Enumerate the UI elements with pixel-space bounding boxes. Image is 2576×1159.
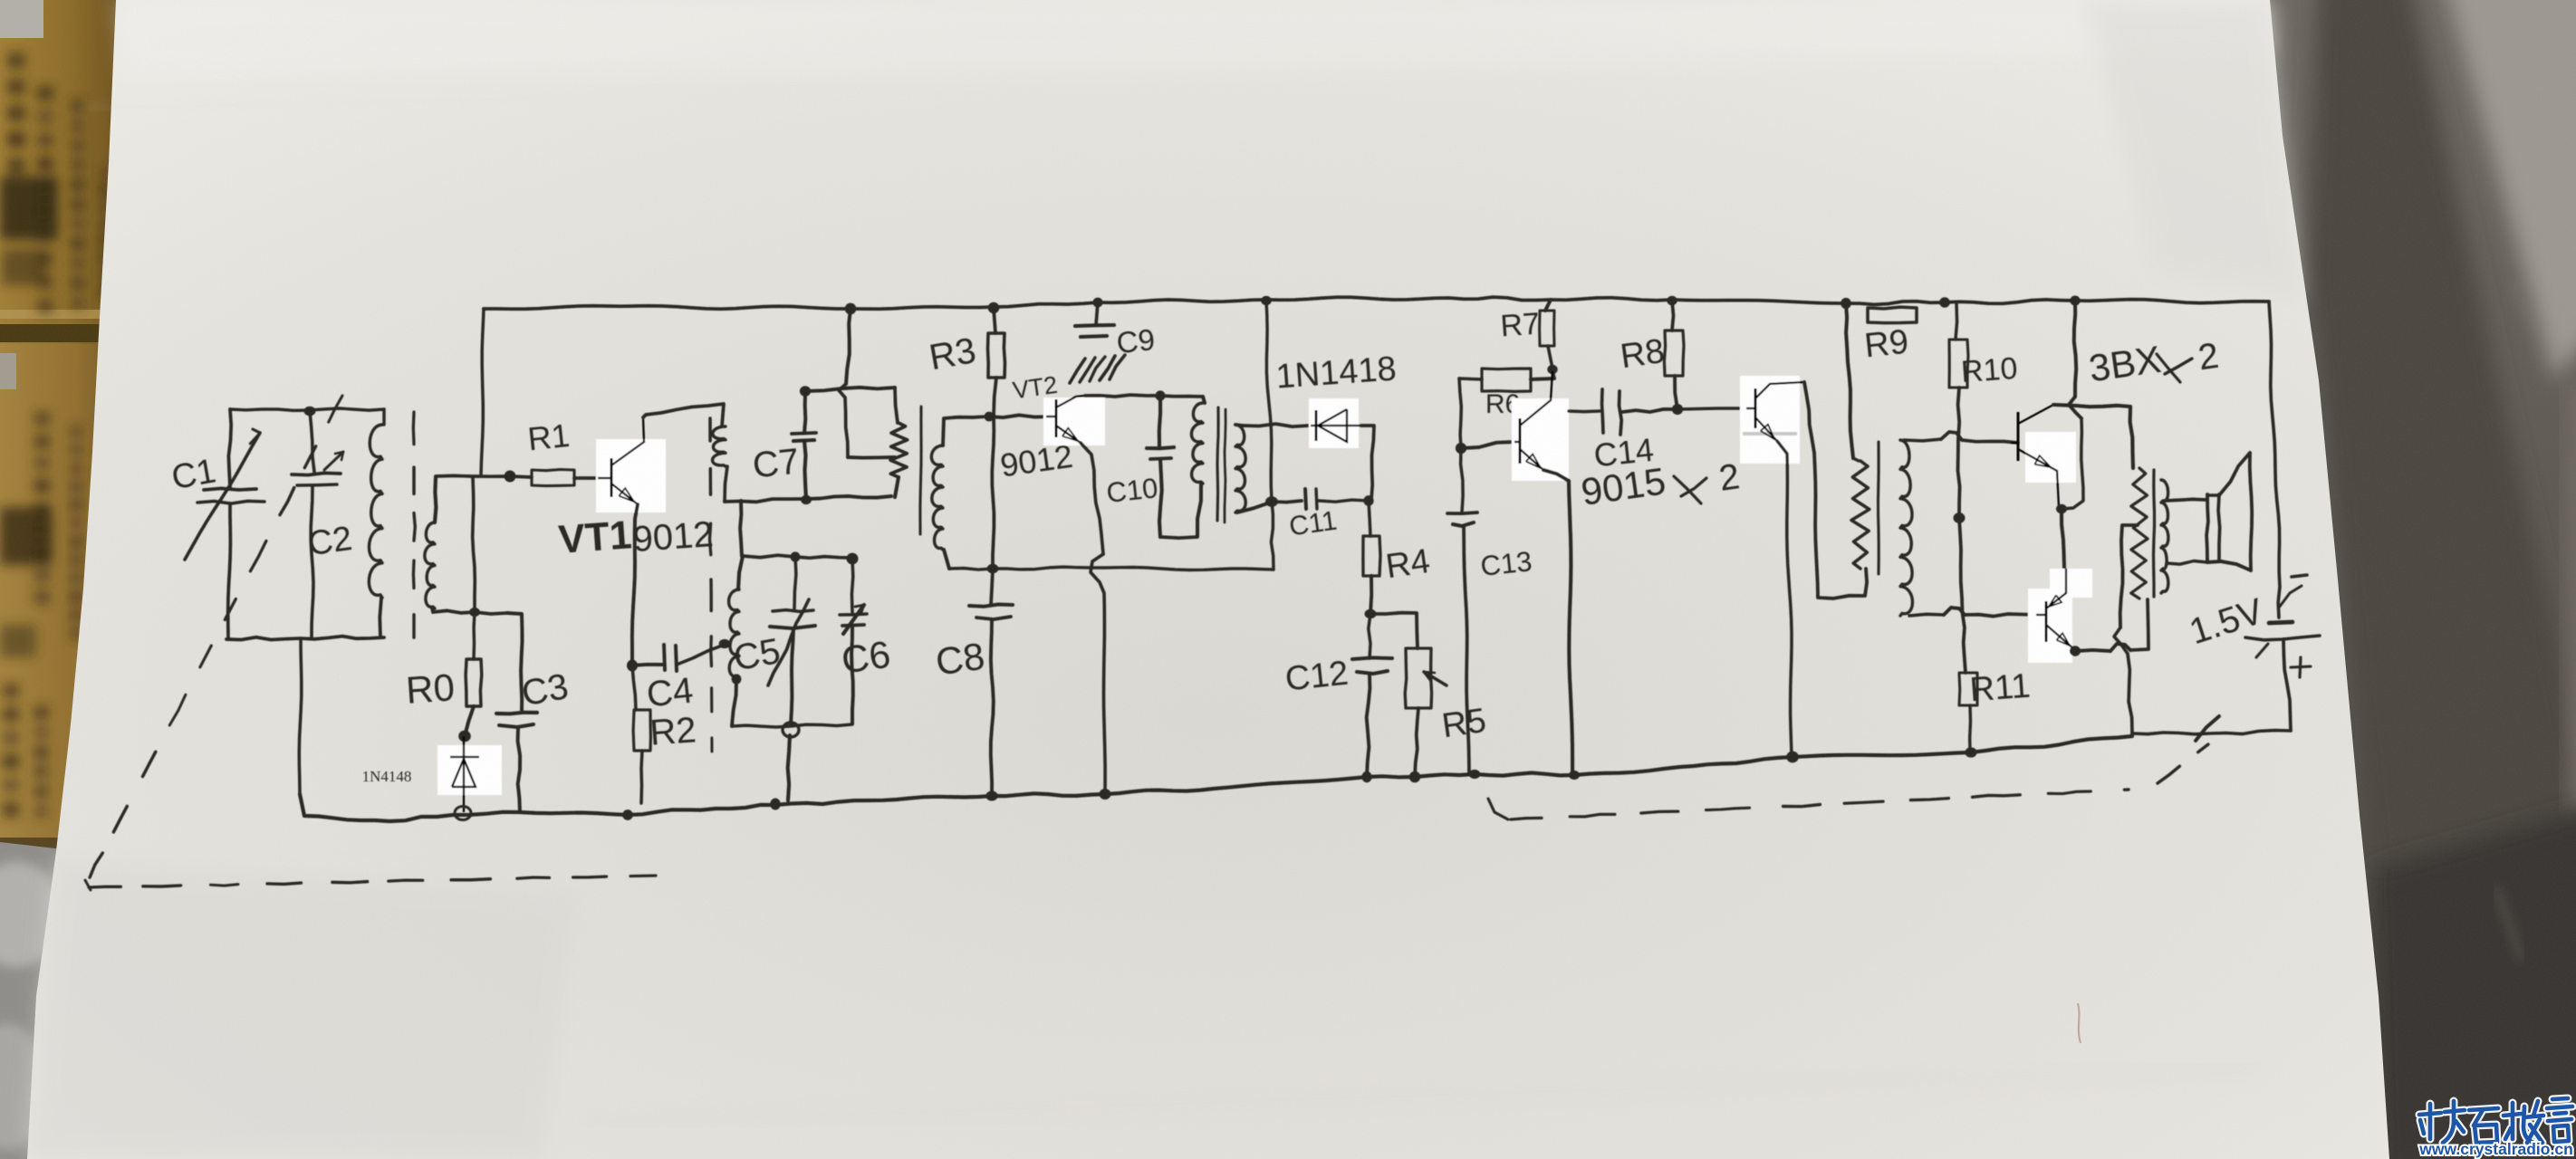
resistor R4 xyxy=(1369,501,1370,536)
resistor R10 and bias chain xyxy=(1956,304,1957,340)
capacitor C4 xyxy=(632,665,662,666)
wire: right edge from top bus to battery xyxy=(2269,302,2280,618)
wire: top bus drop with hop to emitter node xyxy=(2074,301,2076,397)
capacitor C1 (variable) xyxy=(228,409,231,487)
ferrite core bar xyxy=(2154,470,2155,597)
wire: speaker leads xyxy=(2165,499,2206,501)
inductor: IFT2 secondary winding xyxy=(1235,425,1245,512)
node: tank bottom junction xyxy=(783,723,799,737)
resistor R2 xyxy=(632,666,636,710)
node: first AF base node xyxy=(1456,443,1466,454)
capacitor C5 (variable padder) xyxy=(794,557,796,608)
resistor R8 xyxy=(1672,301,1674,330)
ferrite core bars xyxy=(1217,407,1218,521)
node: R6/R7 collector node xyxy=(1547,365,1557,374)
wire: VT2 emitter down across to bus xyxy=(1081,443,1103,554)
dashed shield boundary: left diagonal xyxy=(329,396,342,422)
transistor VT1 9012 (white patch) xyxy=(596,439,666,512)
resistor R6 xyxy=(1459,378,1461,448)
wire: C7 top to winding top xyxy=(805,388,895,391)
speaker xyxy=(2206,494,2208,562)
wire: jog down to oscillator node xyxy=(473,478,476,610)
resistor R7 xyxy=(1545,300,1551,311)
wire: secondary top to Q5 base (hop) xyxy=(1904,439,1941,441)
wire: battery positive line xyxy=(2132,731,2291,734)
inductor: driver transformer primary (zigzag) xyxy=(1846,303,1853,458)
capacitor C13 xyxy=(1461,448,1464,512)
inductor: output transformer secondary xyxy=(2161,480,2168,593)
inductor: output transformer primary (zigzag) xyxy=(2131,468,2148,599)
wire: tuning box bottom xyxy=(226,637,384,640)
resistor R3 xyxy=(994,308,995,333)
wire: to 9015 #2 base xyxy=(1677,408,1746,409)
wire: diode out xyxy=(1361,426,1374,500)
inductor L2 coupling winding xyxy=(425,522,435,608)
wire: Q5 collector to output transformer xyxy=(2053,405,2133,468)
transistor Q6 3BX output bottom (white patch) xyxy=(2028,569,2092,663)
ferrite core bar xyxy=(920,407,921,534)
capacitor C10 xyxy=(1159,396,1160,447)
capacitor C8 xyxy=(991,569,993,605)
ferrite core (dashed) of oscillator coil xyxy=(708,418,712,441)
wire: top bus left corner drop xyxy=(481,309,484,474)
inductor: IFT1 secondary (zigzag winding) xyxy=(890,423,908,477)
node: R3/base junction xyxy=(985,412,995,422)
wire: 9015#2 emitter to bus xyxy=(1777,441,1792,756)
inductor L1 antenna coil xyxy=(382,409,385,425)
capacitor C9 xyxy=(1096,302,1098,325)
wire: to volume pot R5 xyxy=(1370,613,1418,648)
wire: osc coil bottom into tank top-left xyxy=(740,501,742,556)
resistor R1 xyxy=(532,470,574,486)
node: C8 top xyxy=(987,564,999,574)
inductor: driver transformer secondary xyxy=(1900,440,1912,616)
wire: IF bottom line xyxy=(949,567,1274,570)
wire: tank bottom to ground bus xyxy=(788,735,790,800)
node: R8 bottom xyxy=(1672,404,1683,415)
capacitor C2 (trimmer) xyxy=(310,411,314,472)
node: C4 tap on tank coil xyxy=(719,639,731,648)
wire: top bus drop to winding tap xyxy=(846,309,851,384)
node: C7 top xyxy=(800,386,811,397)
transistor Q5 3BX output top (white patch) xyxy=(2025,432,2076,483)
node: top bus junction dots xyxy=(845,303,857,315)
wire: VT1 collector to osc coil top xyxy=(643,404,724,426)
wire: IF line to VT2 base xyxy=(987,415,1051,417)
inductor: IFT2 primary winding xyxy=(1203,397,1205,403)
node: base line dot xyxy=(505,471,516,483)
transistor Q3 9015 #1 (white patch) xyxy=(1512,398,1569,481)
wire: C10 bottom tie xyxy=(1160,537,1197,538)
dashed shield boundary: bottom right xyxy=(1488,799,1508,819)
inductor: IFT1 primary winding xyxy=(931,445,943,550)
transistor VT2 9012 (white patch) xyxy=(1043,398,1105,445)
diode D2 1N1418 (white patch) xyxy=(1243,424,1309,426)
node: emitter node xyxy=(627,660,638,672)
resistor R9 (in supply bus) xyxy=(1868,307,1917,323)
node: C11/R4 junction xyxy=(1363,495,1373,506)
wire: 9015#1 emitter to bus xyxy=(1543,470,1572,776)
wire: 9015#2 collector down to driver transformer xyxy=(1804,382,1867,599)
node: C2 top xyxy=(304,407,316,417)
faint red scribble xyxy=(2078,1003,2081,1043)
node: detector node xyxy=(1265,496,1278,507)
svg-text:www.crystalradio.cn: www.crystalradio.cn xyxy=(2418,1140,2573,1158)
capacitor C14 xyxy=(1569,409,1600,413)
diode D1 1N4148 (white patch) xyxy=(437,745,502,795)
resistor R0 xyxy=(474,612,475,659)
wire: tank circuit bottom xyxy=(732,724,852,727)
transistor Q4 9015 #2 (white patch) xyxy=(1740,376,1800,464)
node: diode top xyxy=(458,731,471,742)
node: AGC node xyxy=(1365,609,1377,618)
capacitor C7 xyxy=(792,433,816,434)
capacitor C11 xyxy=(1272,501,1302,503)
wire: primary centre tap to battery line (hop over emitter wire) xyxy=(2120,525,2138,627)
node: center tap xyxy=(1954,512,1966,523)
wire: tuning box top xyxy=(230,408,384,410)
wire: tank circuit top xyxy=(743,555,854,558)
wire: base feed line xyxy=(436,475,532,477)
wire: base line to 9015 #1 xyxy=(1461,442,1514,448)
capacitor C3 xyxy=(496,713,537,714)
wire: left drop to ground bus xyxy=(299,639,302,794)
wire: coil bottom to C7 bottom xyxy=(725,499,804,502)
node: Q6 emitter xyxy=(2070,646,2081,656)
capacitor C6 (trimmer) xyxy=(851,559,852,612)
wire: bottom ground bus xyxy=(300,736,2132,821)
wire: Q6 emitter to transformer bottom (hop) xyxy=(2075,650,2110,651)
wire: oscillator node xyxy=(433,610,507,614)
stray slash over battery line xyxy=(2196,716,2219,741)
wire: top supply bus xyxy=(484,297,2269,309)
wire: long vertical from top bus xyxy=(1266,301,1274,570)
wire: emitter node down to Q6 xyxy=(2062,511,2064,568)
wire: to C3 xyxy=(507,613,523,713)
ground symbol under C9 xyxy=(1070,359,1085,383)
ferrite core bar xyxy=(1877,442,1880,574)
wire: secondary bottom to Q6 base (hop) xyxy=(1909,614,1944,616)
hand-drawn schematic xyxy=(85,296,2320,891)
node: Q5 emitter / Q6 collector xyxy=(2056,504,2067,514)
wire: VT2 collector line xyxy=(1085,395,1203,397)
ferrite core (dashed) of antenna coil xyxy=(412,412,416,445)
battery B1 1.5V xyxy=(2292,575,2307,577)
inductor L3 tank coil xyxy=(738,556,743,589)
dashed shield boundary: bottom left xyxy=(85,880,91,890)
capacitor C12 xyxy=(1369,614,1370,658)
wire: VT1 emitter down xyxy=(632,504,638,666)
background: grey floor bottom-left xyxy=(0,842,63,1159)
potentiometer R5 xyxy=(1405,648,1431,708)
resistor R11 xyxy=(1959,673,1977,705)
node: C7 bottom xyxy=(801,495,812,504)
inductor: oscillator coil upper winding xyxy=(713,426,726,466)
node: bottom bus junction dots xyxy=(622,809,633,820)
watermark crystalradio xyxy=(2419,1098,2572,1143)
node: C10 top xyxy=(1156,390,1166,400)
node: ground loop at diode xyxy=(455,807,471,820)
